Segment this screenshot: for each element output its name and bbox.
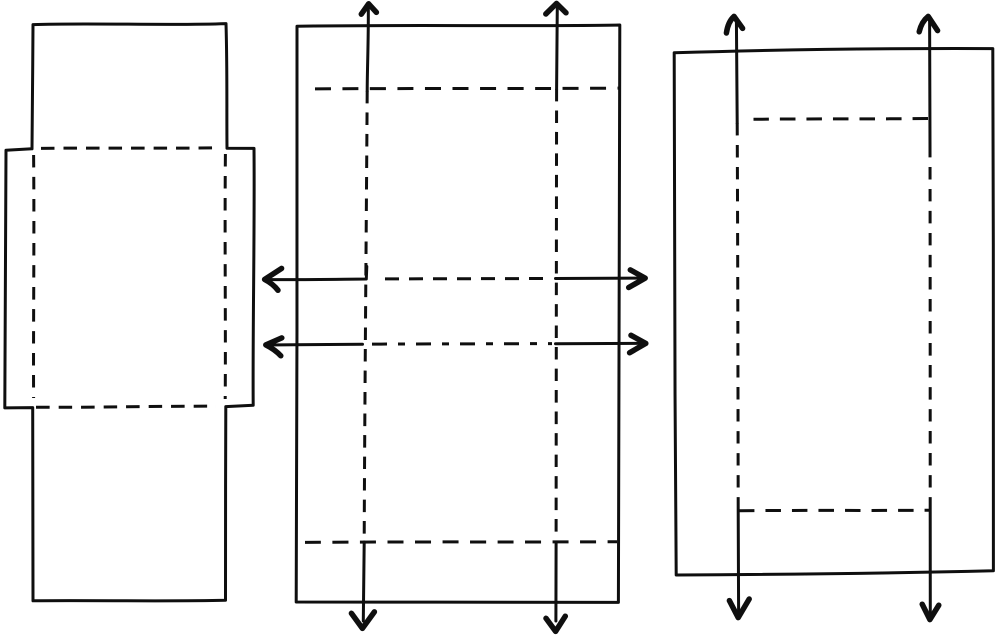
right vertical cut line C with up and down arrows — [726, 16, 749, 617]
right inner fold line bottom (dashed) — [739, 509, 929, 513]
middle bottom fold line (dashed) — [305, 540, 617, 544]
middle horizontal cut line 2 with left and right arrows — [266, 335, 646, 356]
right vertical cut line D with up and down arrows — [919, 16, 939, 619]
left template outline — [5, 24, 254, 601]
left fold line top (dashed) — [41, 146, 215, 150]
middle vertical cut line B with up and down arrows — [546, 3, 566, 631]
right sheet outline — [674, 49, 993, 575]
right inner fold line top (dashed) — [754, 117, 929, 121]
middle top fold line (dashed) — [315, 87, 620, 91]
middle vertical cut line A with up and down arrows — [351, 4, 376, 629]
left fold line right vertical (dashed) — [224, 154, 227, 399]
left fold line bottom (dashed) — [36, 406, 216, 407]
middle sheet outline — [296, 25, 620, 602]
middle horizontal cut line 1 with left and right arrows — [265, 267, 646, 291]
left fold line left vertical (dashed) — [32, 155, 35, 398]
